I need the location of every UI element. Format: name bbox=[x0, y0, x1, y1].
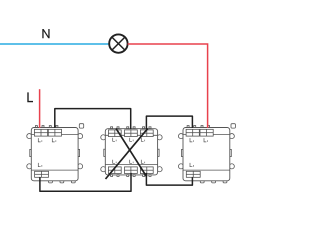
switch S1 label Lx bbox=[38, 163, 42, 167]
switch S3 label L1 bbox=[190, 138, 194, 142]
switch S2 top terminal 2 bbox=[125, 127, 138, 137]
switch S2 label top 3 bbox=[141, 138, 144, 142]
label N bbox=[42, 29, 49, 38]
wire switch S1 to switch S2 bottom (black) bbox=[40, 173, 131, 191]
switch S3 top terminal 1 bbox=[186, 126, 199, 137]
switch S3 bottom terminal bbox=[186, 171, 200, 177]
switch S1 top terminal 2 bbox=[48, 126, 61, 137]
switch S2 top terminal 3 bbox=[140, 127, 153, 137]
wire switch S1 to switch S2 top (black) bbox=[55, 109, 131, 130]
switch S3 label L2 bbox=[204, 138, 208, 142]
wire N neutral (blue) bbox=[0, 43, 109, 45]
switch S2 bottom terminal 3 bbox=[140, 167, 153, 177]
label L bbox=[27, 92, 33, 102]
switch S2 crossover wire TR-BL bbox=[106, 128, 148, 179]
switch S2 label bottom 3 bbox=[141, 160, 144, 164]
wire switch S2 to switch S3 top (black) bbox=[146, 116, 192, 129]
wire switch S2 to switch S3 bottom (black) bbox=[146, 173, 192, 185]
wire lamp to switch S3 (red) bbox=[128, 44, 208, 128]
switch S2 label bottom 1 bbox=[113, 160, 116, 164]
switch S2 top terminal 1 bbox=[108, 127, 121, 137]
switch S2 label bottom 2 bbox=[130, 160, 133, 164]
switch S2 body bbox=[101, 129, 162, 175]
switch S2 bottom terminal 1 bbox=[108, 167, 121, 177]
switch S1 body bbox=[27, 124, 84, 183]
switch S3 top terminal 2 bbox=[200, 126, 213, 137]
wire L feed (red) bbox=[39, 89, 41, 128]
lamp E1 bbox=[109, 34, 127, 52]
switch S1 top terminal 1 bbox=[34, 126, 47, 137]
switch S2 label top 1 bbox=[113, 138, 116, 142]
switch S1 bottom terminal bbox=[35, 171, 49, 177]
switch S2 label top 2 bbox=[130, 138, 133, 142]
switch S2 crossover wire TL-BR bbox=[116, 128, 147, 176]
switch S1 label L1 bbox=[38, 138, 42, 142]
switch S1 label L2 bbox=[52, 138, 56, 142]
switch S3 body bbox=[178, 124, 235, 183]
switch S2 bottom terminal 2 bbox=[125, 167, 138, 177]
switch S3 label Lx bbox=[190, 163, 194, 167]
